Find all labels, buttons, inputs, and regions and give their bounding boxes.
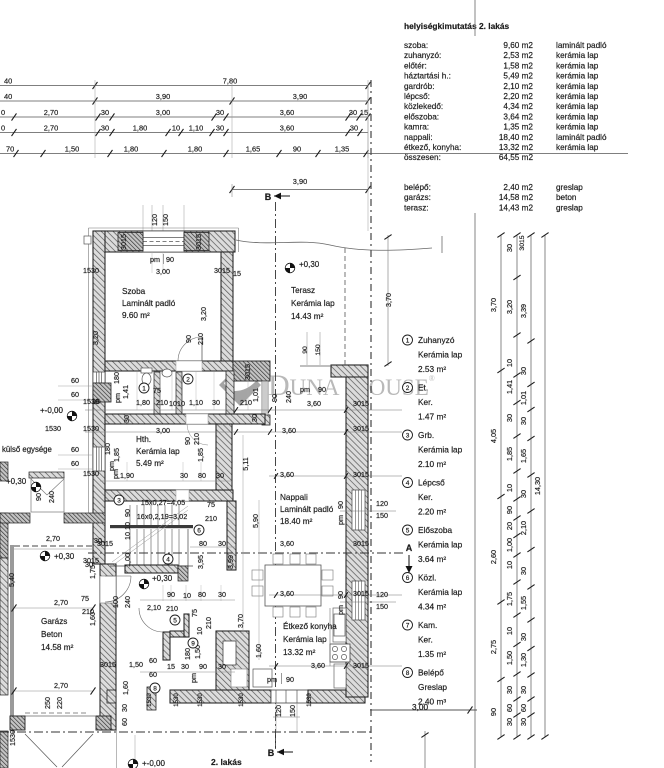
svg-text:3,90: 3,90 [156,92,170,101]
svg-text:3,60: 3,60 [280,108,294,117]
walkway edge lines [116,730,118,768]
svg-text:30: 30 [216,108,224,117]
svg-text:1,00: 1,00 [505,538,514,552]
svg-text:3015: 3015 [353,589,369,598]
svg-text:240: 240 [284,391,293,403]
svg-text:5,90: 5,90 [251,514,260,528]
svg-text:külső egysége: külső egysége [2,445,52,454]
belepo niche [223,641,236,665]
svg-text:75: 75 [207,500,215,509]
svg-text:Hth.: Hth. [136,435,151,444]
svg-text:beton: beton [556,193,577,202]
svg-text:1,85: 1,85 [112,448,121,462]
svg-text:30: 30 [122,415,131,423]
wall left (west) lower transition [93,516,105,564]
dimension chain rows top-left [0,85,368,87]
svg-text:14,58 m2: 14,58 m2 [499,193,534,202]
svg-text:kerámia lap: kerámia lap [556,61,599,70]
svg-text:4,34 m2: 4,34 m2 [503,102,533,111]
svg-text:3015: 3015 [214,266,230,275]
svg-text:30: 30 [120,704,129,712]
svg-text:pm: pm [111,469,120,479]
svg-text:14.58 m²: 14.58 m² [41,643,74,652]
svg-text:210: 210 [205,514,217,523]
svg-text:Kerámia lap: Kerámia lap [283,635,327,644]
pier left [118,233,143,251]
svg-text:3015: 3015 [353,424,369,433]
svg-text:3,60: 3,60 [280,539,294,548]
svg-text:90: 90 [167,590,175,599]
wall left (west) upper [93,231,105,516]
toilet [141,368,152,373]
svg-text:közlekedő:: közlekedő: [404,102,443,111]
svg-text:Kerámia lap: Kerámia lap [418,445,463,455]
svg-text:5,11: 5,11 [241,457,250,470]
svg-text:30: 30 [505,244,514,252]
bath door arc [187,424,208,445]
svg-text:2,10 m2: 2,10 m2 [503,82,533,91]
svg-text:120: 120 [150,214,159,226]
svg-text:2. lakás: 2. lakás [211,757,242,767]
small box outside top-left [84,236,91,244]
svg-text:1,65: 1,65 [519,449,528,463]
svg-text:150: 150 [376,511,388,520]
svg-text:pm: pm [189,673,198,683]
svg-text:Lépcső: Lépcső [418,478,445,488]
svg-text:1,35: 1,35 [335,145,349,154]
svg-text:220: 220 [55,697,64,709]
60 dim stub lines [58,385,93,387]
svg-text:1,80: 1,80 [133,124,147,133]
svg-text:garázs:: garázs: [404,193,431,202]
svg-text:30: 30 [180,471,188,480]
svg-text:30: 30 [519,633,528,641]
svg-text:9: 9 [191,641,195,648]
wall stub garage side [107,690,116,703]
svg-text:4: 4 [166,557,170,564]
svg-text:1530: 1530 [307,693,313,707]
svg-text:kerámia lap: kerámia lap [556,102,599,111]
svg-text:1,65: 1,65 [246,145,260,154]
svg-text:Zuhanyzó: Zuhanyzó [418,335,455,345]
svg-text:150: 150 [288,705,297,717]
svg-text:belépő:: belépő: [404,183,431,192]
projection dash line x371 [370,80,372,762]
svg-text:30: 30 [218,590,226,599]
svg-text:10: 10 [505,484,514,492]
svg-text:1,01: 1,01 [519,391,528,405]
outer contour thin lines [88,228,90,516]
svg-text:7,80: 7,80 [223,77,237,86]
svg-text:3,70: 3,70 [384,293,393,307]
svg-text:10: 10 [169,399,177,408]
svg-text:90: 90 [505,506,514,514]
svg-text:Kerámia lap: Kerámia lap [418,587,463,597]
wall band south of house west part [0,513,30,523]
svg-text:2,53 m2: 2,53 m2 [503,51,533,60]
bottom dash-dot line [0,731,372,733]
svg-text:1,90: 1,90 [120,471,134,480]
svg-text:60: 60 [71,445,79,454]
vest wall a [163,632,170,660]
svg-text:2,40 m2: 2,40 m2 [503,183,533,192]
svg-text:10: 10 [183,591,191,600]
svg-text:3,20: 3,20 [505,300,514,314]
svg-text:3,00: 3,00 [412,702,429,712]
svg-text:3,70: 3,70 [236,614,245,628]
svg-text:240: 240 [47,491,56,503]
wall terasz-nappali door jamb [262,415,270,425]
stair landing edge [110,525,193,528]
svg-text:150: 150 [315,344,322,356]
svg-text:10: 10 [505,561,514,569]
svg-text:3,60: 3,60 [280,124,294,133]
stair treads upper flight [129,505,131,525]
counter box bottom [253,669,272,687]
svg-text:10: 10 [172,124,180,133]
svg-text:1,80: 1,80 [136,398,150,407]
svg-text:1530: 1530 [83,266,99,275]
svg-text:30: 30 [218,539,226,548]
svg-text:10: 10 [195,627,204,635]
terasz corner post line [441,236,443,253]
svg-text:5: 5 [173,618,177,625]
svg-text:90: 90 [293,145,301,154]
svg-text:60: 60 [120,718,129,726]
garage bottom corner block [10,716,25,730]
svg-text:13,32 m2: 13,32 m2 [499,143,534,152]
svg-text:Laminált padló: Laminált padló [122,299,176,308]
svg-text:60: 60 [71,459,79,468]
chairs [252,570,263,580]
wall stub entrance left [147,687,156,710]
svg-text:8: 8 [153,686,157,693]
svg-text:60: 60 [519,704,528,712]
svg-text:4: 4 [406,480,410,487]
svg-text:1,60: 1,60 [254,644,263,658]
svg-text:Kerámia lap: Kerámia lap [136,447,180,456]
section line B vertical [275,202,277,748]
svg-text:14,43 m2: 14,43 m2 [499,203,534,212]
svg-text:60: 60 [149,656,157,665]
svg-text:előszoba:: előszoba: [404,112,439,121]
wall block east of szoba door [233,361,270,381]
svg-text:kamra:: kamra: [404,123,429,132]
svg-text:3,00: 3,00 [156,108,170,117]
svg-text:30: 30 [349,108,357,117]
sill line nappali door [300,365,331,367]
svg-text:30: 30 [85,560,93,569]
svg-text:pm: pm [150,255,160,264]
svg-text:30: 30 [519,490,528,498]
stair cut diagonals [112,506,188,562]
entry door arc west [105,575,131,577]
wall szoba east [221,252,233,361]
svg-text:6: 6 [197,528,201,535]
svg-text:3015: 3015 [353,470,369,479]
interior dim lines nappali [85,409,402,411]
svg-text:120: 120 [376,590,388,599]
level marker garage [40,551,50,561]
svg-text:10: 10 [123,522,132,530]
dining table [265,565,321,606]
kamra wall block [216,631,249,692]
svg-text:étkező, konyha:: étkező, konyha: [404,143,461,152]
svg-text:3,39: 3,39 [519,304,528,318]
bath divider wall 2 [176,372,182,414]
svg-text:150: 150 [376,602,388,611]
svg-text:kerámia lap: kerámia lap [556,51,599,60]
svg-text:40: 40 [4,92,12,101]
counter below stove [334,664,346,688]
level marker bottom [128,759,138,768]
pm 90 divider line [163,254,165,264]
svg-text:nappali:: nappali: [404,133,433,142]
svg-text:4,05: 4,05 [489,429,498,443]
svg-text:lépcső:: lépcső: [404,92,430,101]
svg-text:+-0,00: +-0,00 [40,406,63,415]
right vertical dimension chains [500,235,502,737]
svg-text:3015: 3015 [243,364,252,380]
svg-text:+0,30: +0,30 [6,477,27,486]
svg-text:1,50: 1,50 [65,145,79,154]
svg-text:helyiségkimutatás 2. lakás: helyiségkimutatás 2. lakás [404,21,510,31]
svg-text:3,70: 3,70 [489,298,498,312]
svg-text:Étkező konyha: Étkező konyha [283,621,337,631]
svg-text:180: 180 [112,372,121,384]
svg-text:1530: 1530 [239,693,245,707]
svg-text:3015: 3015 [519,235,526,250]
eloszoba door arc [139,608,163,632]
svg-text:30: 30 [216,124,224,133]
svg-text:2,10: 2,10 [147,603,161,612]
svg-text:3,00: 3,00 [156,426,170,435]
svg-text:13.32 m²: 13.32 m² [283,648,316,657]
svg-text:kerámia lap: kerámia lap [556,92,599,101]
svg-text:80: 80 [198,471,206,480]
svg-text:5: 5 [406,528,410,535]
svg-text:3: 3 [117,498,121,505]
svg-text:1,41: 1,41 [505,380,514,394]
vest wall c [184,614,189,637]
svg-text:10: 10 [505,359,514,367]
svg-text:terasz:: terasz: [404,203,429,212]
svg-text:3015: 3015 [353,661,369,670]
svg-text:60: 60 [71,376,79,385]
svg-text:15: 15 [233,269,241,278]
svg-text:1,00: 1,00 [123,553,132,567]
svg-text:210: 210 [204,617,213,629]
svg-text:1,58 m2: 1,58 m2 [503,61,533,70]
svg-text:2: 2 [186,377,190,384]
window west 2 [93,447,105,471]
svg-text:kerámia lap: kerámia lap [556,143,599,152]
svg-text:gardrób:: gardrób: [404,82,435,91]
svg-text:90: 90 [34,493,43,501]
svg-text:összesen:: összesen: [404,153,441,162]
svg-text:90: 90 [166,255,174,264]
svg-text:2,70: 2,70 [46,534,60,543]
svg-text:3,60: 3,60 [280,589,294,598]
svg-text:Belépő: Belépő [418,668,444,678]
wall east (right) [346,365,368,697]
svg-text:75: 75 [81,594,89,603]
svg-text:5.49 m²: 5.49 m² [136,459,164,468]
svg-text:250: 250 [43,697,52,709]
svg-text:0: 0 [1,124,5,133]
svg-text:előtér:: előtér: [404,61,427,70]
svg-text:20: 20 [505,522,514,530]
wall garage-house divider [100,564,116,730]
svg-text:kerámia lap: kerámia lap [556,123,599,132]
wall bath south band [105,414,265,424]
svg-text:18.40 m²: 18.40 m² [280,517,313,526]
svg-text:90: 90 [318,385,326,394]
door gap stairwell [176,490,189,501]
svg-text:2,70: 2,70 [44,108,58,117]
svg-text:3,60: 3,60 [282,426,296,435]
door gap szoba south [176,361,202,371]
svg-text:30: 30 [101,108,109,117]
svg-text:90: 90 [123,509,132,517]
svg-text:3,00: 3,00 [156,267,170,276]
wall hall-nappali lower [227,501,236,570]
svg-text:210: 210 [166,604,178,613]
svg-text:30: 30 [505,414,514,422]
legend numbered room list [403,335,413,345]
level marker 0.00 [67,411,77,421]
svg-text:kerámia lap: kerámia lap [556,72,599,81]
svg-text:100: 100 [111,596,120,608]
svg-text:háztartási h.:: háztartási h.: [404,72,451,81]
svg-text:pm: pm [336,515,345,525]
svg-text:kerámia lap: kerámia lap [556,112,599,121]
svg-text:1530: 1530 [174,693,180,707]
svg-text:Kerámia lap: Kerámia lap [418,350,463,360]
svg-text:1,60: 1,60 [121,681,130,695]
svg-text:1.47 m²: 1.47 m² [418,412,446,422]
svg-text:60: 60 [505,704,514,712]
level marker garden [31,482,41,492]
svg-text:75: 75 [153,386,161,395]
svg-text:3,99: 3,99 [226,555,235,569]
svg-text:10: 10 [177,399,185,408]
svg-text:1530: 1530 [83,424,99,433]
svg-text:laminált padló: laminált padló [556,41,607,50]
svg-text:3: 3 [406,433,410,440]
window west 1 [93,372,105,383]
entry north wall [125,565,178,573]
svg-text:210: 210 [156,398,168,407]
kitchen counter [329,608,331,666]
frame line horizontal y710 [370,709,477,711]
svg-text:2,70: 2,70 [54,681,68,690]
svg-text:3015: 3015 [100,660,116,669]
level marker house entry [139,579,149,589]
svg-text:1,85: 1,85 [196,448,205,462]
svg-text:9,60 m2: 9,60 m2 [503,41,533,50]
svg-text:210: 210 [192,433,201,445]
wall szoba south band [105,361,233,371]
pier shower corner [93,383,111,402]
stair right edge [187,529,189,566]
wall gardrob east vertical [226,371,234,414]
svg-text:2,70: 2,70 [54,598,68,607]
svg-text:1530: 1530 [198,693,204,707]
svg-text:Nappali: Nappali [280,493,308,502]
svg-text:90: 90 [184,335,193,343]
circled numbers in plan [139,383,149,393]
garage bottom sill [14,715,96,717]
svg-text:szoba:: szoba: [404,41,428,50]
svg-text:90: 90 [336,501,345,509]
dimension 3,90 above terasz [232,189,368,191]
svg-text:3,20: 3,20 [199,307,208,321]
svg-text:3,90: 3,90 [293,92,307,101]
svg-text:30: 30 [181,662,189,671]
svg-text:80: 80 [198,590,206,599]
bath divider wall [154,372,160,414]
svg-text:30: 30 [218,662,226,671]
svg-text:240: 240 [123,596,132,608]
svg-text:3015: 3015 [353,399,369,408]
svg-text:2,75: 2,75 [489,640,498,654]
svg-text:3,20: 3,20 [91,331,100,345]
svg-text:B: B [268,748,275,758]
garage door swing [25,734,57,767]
svg-text:15: 15 [92,397,100,406]
svg-text:3,60: 3,60 [280,470,294,479]
svg-text:8: 8 [406,670,410,677]
svg-text:Kerámia lap: Kerámia lap [418,540,463,550]
svg-text:3015: 3015 [353,539,369,548]
svg-text:Közl.: Közl. [418,573,436,583]
svg-text:1.35 m²: 1.35 m² [418,649,446,659]
svg-text:30: 30 [519,686,528,694]
svg-text:90: 90 [270,394,279,402]
porch top stub [29,472,64,478]
svg-text:1530: 1530 [147,693,153,707]
svg-text:180: 180 [103,443,112,455]
svg-text:1,80: 1,80 [188,145,202,154]
interior extension verticals bathroom [136,372,138,410]
svg-text:1,10: 1,10 [189,124,203,133]
terasz dashed edge [344,248,346,365]
watermark duna house logo [219,364,261,406]
svg-text:30: 30 [505,686,514,694]
svg-text:Előszoba: Előszoba [418,525,453,535]
svg-text:1530: 1530 [45,424,61,433]
svg-text:1530: 1530 [83,469,99,478]
svg-text:zuhanyzó:: zuhanyzó: [404,51,441,60]
entry door gap [100,576,116,603]
svg-text:+0,30: +0,30 [152,574,173,583]
svg-text:pm: pm [336,605,345,615]
svg-text:10: 10 [123,532,132,540]
svg-text:90: 90 [302,346,309,354]
svg-text:1,85: 1,85 [505,447,514,461]
kitchen sink [334,614,345,636]
svg-text:30: 30 [212,398,220,407]
extension lines above plan [142,205,144,231]
svg-text:Grb.: Grb. [418,430,434,440]
svg-text:210: 210 [196,333,205,345]
svg-text:2.53 m²: 2.53 m² [418,364,446,374]
svg-text:4.34 m²: 4.34 m² [418,602,446,612]
svg-text:Kerámia lap: Kerámia lap [291,299,335,308]
svg-text:pm: pm [300,385,310,394]
svg-text:1,10: 1,10 [189,398,203,407]
